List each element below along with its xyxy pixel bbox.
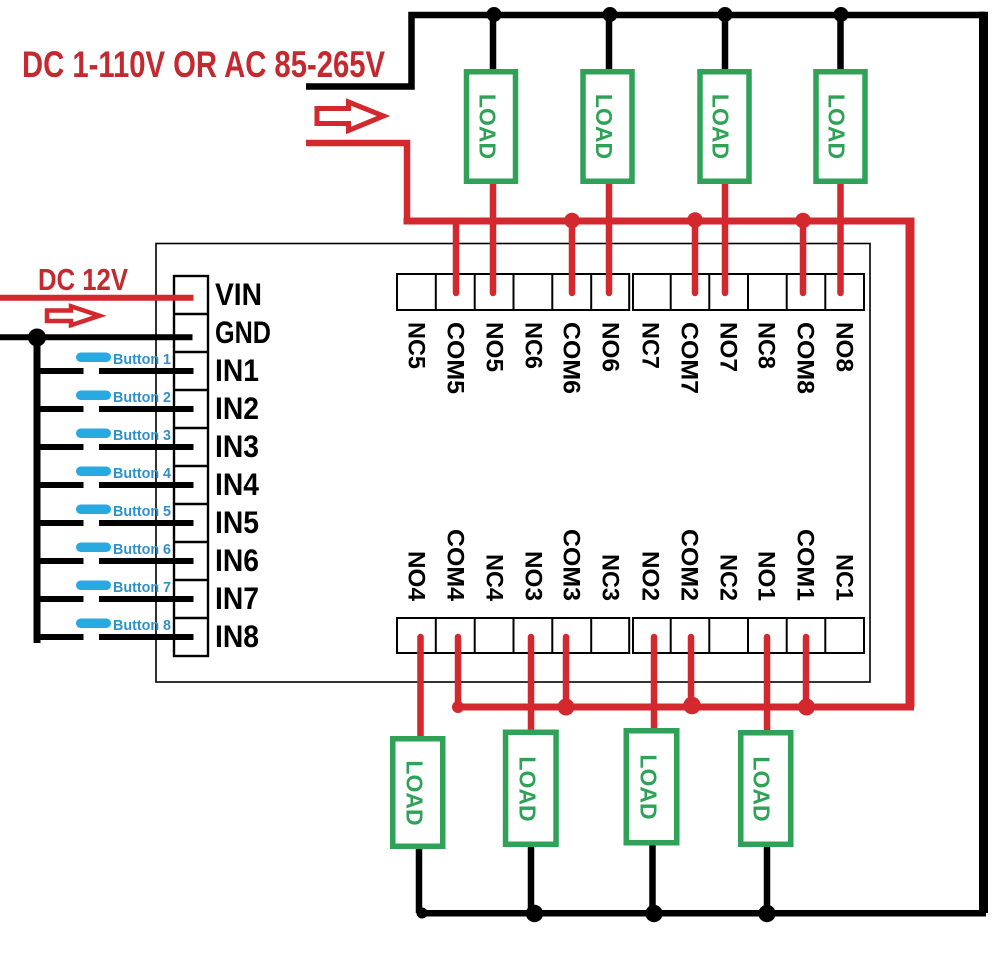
switch S4 wires (button 4) [34, 482, 194, 488]
switch S5 wires (button 5) [34, 520, 194, 526]
svg-text:NC5: NC5 [402, 322, 429, 369]
wire: red tee to COM5 [453, 221, 460, 293]
svg-text:VIN: VIN [215, 276, 262, 312]
svg-text:Button 6: Button 6 [113, 541, 171, 558]
wire: black stub to load L5 [490, 15, 497, 71]
wire: red NO2 to load L2 [651, 637, 658, 731]
junction on bottom bus at load L1 [758, 905, 775, 922]
wire: black stub to load L7 [722, 15, 729, 71]
switch S6 wires (button 6) [34, 558, 194, 564]
svg-text:LOAD: LOAD [402, 760, 428, 825]
button 7 cap [76, 581, 111, 591]
svg-text:Button 4: Button 4 [113, 465, 172, 482]
wire: red right-side drop [906, 218, 915, 708]
button 6 cap [76, 543, 111, 553]
wire: black from load L1 bottom to bottom bus [764, 845, 771, 913]
svg-text:NC3: NC3 [596, 554, 623, 601]
wire: red load L6 to NO6 [606, 183, 613, 293]
svg-text:IN1: IN1 [215, 352, 259, 388]
junction red bottom bus at COM2 [683, 697, 701, 715]
input pin header strip VIN..IN8 [174, 276, 208, 656]
svg-text:NC1: NC1 [830, 554, 857, 601]
svg-text:LOAD: LOAD [708, 94, 734, 159]
junction on bottom bus at load L2 [645, 905, 662, 922]
junction on top bus at load L8 [834, 7, 849, 22]
svg-text:LOAD: LOAD [515, 756, 541, 821]
svg-text:Button 1: Button 1 [113, 351, 171, 368]
wire: red tee to COM8 [800, 221, 807, 293]
junction red bus at COM7 [687, 212, 703, 228]
svg-text:NO4: NO4 [402, 551, 429, 602]
wire: red AC supply feed, right side drop and bottom COM bus [306, 143, 407, 221]
svg-text:Button 5: Button 5 [113, 503, 171, 520]
svg-text:LOAD: LOAD [475, 94, 501, 159]
wire: red COM distribution bus (bottom) [457, 704, 915, 711]
svg-text:NO5: NO5 [480, 322, 507, 372]
svg-text:NO8: NO8 [830, 322, 857, 372]
junction red bottom bus at COM3 [558, 699, 575, 716]
wire: red load L5 to NO5 [490, 183, 497, 293]
switch S7 wires (button 7) [34, 596, 194, 602]
svg-text:DC 1-110V OR AC 85-265V: DC 1-110V OR AC 85-265V [22, 43, 385, 85]
wire: red COM4 drop to bottom red bus [455, 637, 462, 707]
wire: red COM3 drop to bottom red bus [563, 637, 570, 707]
junction on bottom bus at load L3 [526, 905, 543, 922]
svg-text:Button 3: Button 3 [113, 427, 171, 444]
top terminal block group NC7-NO8 [633, 274, 864, 310]
svg-text:IN7: IN7 [215, 580, 259, 616]
svg-text:IN8: IN8 [215, 618, 259, 654]
switch S2 wires (button 2) [34, 406, 194, 412]
load L4 (bottom 1) [393, 739, 443, 847]
load L8 (top 4) [816, 72, 865, 182]
module board outline [156, 244, 870, 683]
wire: red COM distribution bus (top) [404, 218, 915, 225]
svg-text:COM1: COM1 [791, 529, 818, 601]
junction on bottom bus at x421 [417, 908, 428, 919]
wire: red NO3 to load L3 [528, 637, 535, 733]
load L7 (top 3) [700, 72, 749, 182]
junction red bottom bus at COM4 [452, 701, 464, 713]
svg-text:COM3: COM3 [557, 529, 584, 601]
svg-text:IN2: IN2 [215, 390, 259, 426]
svg-text:COM5: COM5 [441, 322, 468, 394]
switch S1 wires (button 1) [34, 368, 194, 374]
junction on top bus at load L7 [718, 7, 733, 22]
wire: black from load L3 bottom to bottom bus [528, 845, 535, 913]
wire: black stub to load L6 [606, 15, 613, 71]
wire: black from load L2 bottom to bottom bus [649, 844, 656, 914]
svg-text:LOAD: LOAD [749, 756, 775, 821]
wire: black from load L4 bottom to bottom bus [416, 847, 423, 913]
load L2 (bottom 3) [626, 731, 677, 843]
wire: black bottom return bus [421, 910, 986, 917]
wire: black stub to load L8 [837, 15, 844, 71]
svg-text:Button 2: Button 2 [113, 389, 171, 406]
svg-text:NC7: NC7 [636, 322, 663, 369]
wire: red COM2 drop to bottom red bus [688, 637, 695, 707]
switch S3 wires (button 3) [34, 444, 194, 450]
svg-text:NO2: NO2 [636, 551, 663, 601]
wire: black right-side return drop [979, 12, 988, 913]
junction GND / button bus [28, 329, 46, 347]
svg-text:NO6: NO6 [596, 322, 623, 372]
junction red bus at COM6 [564, 213, 580, 229]
junction on top bus at load L6 [603, 7, 618, 22]
wire: red COM1 drop to bottom red bus [803, 637, 810, 707]
button 1 cap [76, 353, 111, 363]
junction red bus at COM8 [795, 213, 811, 229]
load L5 (top 1) [467, 72, 516, 182]
button 2 cap [76, 391, 111, 401]
wire: black AC supply top bus / right side / bottom bus [306, 15, 985, 87]
wire: red tee to COM6 [569, 221, 576, 293]
svg-text:IN6: IN6 [215, 542, 259, 578]
wire: red NO1 to load L1 [764, 637, 771, 733]
wire: red load L7 to NO7 [722, 183, 729, 293]
wire: red NO4 to load L4 [417, 637, 424, 739]
top terminal block group NC5-NO6 [397, 274, 629, 310]
button 4 cap [76, 467, 111, 477]
svg-text:NO7: NO7 [714, 322, 741, 372]
junction red bottom bus at COM1 [798, 699, 815, 716]
svg-text:COM6: COM6 [557, 322, 584, 394]
svg-text:GND: GND [215, 314, 271, 350]
svg-text:Button 7: Button 7 [113, 579, 171, 596]
svg-text:NO1: NO1 [752, 551, 779, 601]
load L1 (bottom 4) [741, 733, 791, 845]
wire: red load L8 to NO8 [837, 183, 844, 293]
svg-text:NC6: NC6 [519, 322, 546, 369]
svg-text:LOAD: LOAD [824, 94, 850, 159]
wire: left button common bus [34, 338, 41, 643]
load L6 (top 2) [583, 72, 632, 182]
svg-text:LOAD: LOAD [636, 754, 662, 819]
bottom terminal block group NO4-NC3 [397, 618, 629, 653]
junction on top bus at load L5 [487, 7, 502, 22]
svg-text:Button 8: Button 8 [113, 617, 171, 634]
svg-text:COM4: COM4 [441, 529, 468, 602]
bottom terminal block group NO2-NC1 [633, 618, 864, 653]
arrow: AC supply direction [317, 102, 384, 131]
svg-text:NC8: NC8 [752, 322, 779, 369]
switch S8 wires (button 8) [34, 634, 194, 640]
button 5 cap [76, 505, 111, 515]
button 3 cap [76, 429, 111, 439]
wire: black GND [0, 334, 193, 340]
wire: red tee to COM7 [692, 221, 699, 293]
wire: red DC12V to VIN [0, 295, 194, 301]
svg-text:IN5: IN5 [215, 504, 259, 540]
svg-text:COM7: COM7 [675, 322, 702, 394]
svg-text:NC4: NC4 [480, 554, 507, 602]
svg-text:IN4: IN4 [215, 466, 259, 502]
button 8 cap [76, 619, 111, 629]
svg-text:DC 12V: DC 12V [38, 263, 129, 297]
svg-text:IN3: IN3 [215, 428, 259, 464]
load L3 (bottom 2) [506, 732, 557, 844]
arrow: DC supply direction [47, 306, 100, 325]
svg-text:NO3: NO3 [519, 551, 546, 601]
svg-text:COM2: COM2 [675, 529, 702, 601]
svg-text:COM8: COM8 [791, 322, 818, 394]
svg-text:NC2: NC2 [714, 554, 741, 601]
svg-text:LOAD: LOAD [591, 94, 617, 159]
